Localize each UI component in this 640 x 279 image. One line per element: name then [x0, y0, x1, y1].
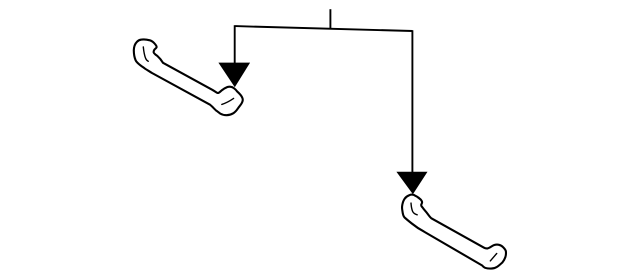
callout horizontal line — [235, 26, 412, 31]
crease on left handle upper end — [143, 47, 148, 61]
callout leader tick (top center) — [329, 9, 331, 29]
wire: left vertical drop — [234, 25, 236, 64]
wire: right vertical drop — [411, 30, 413, 173]
crease on right handle upper end — [411, 203, 417, 215]
crease on right handle lower end — [490, 254, 496, 261]
grab handle (right) outline — [402, 195, 506, 269]
crease on left handle lower end — [222, 98, 234, 104]
arrowhead to left handle — [218, 63, 250, 88]
arrowhead to right handle — [396, 172, 427, 195]
grab handle (left) outline — [134, 39, 243, 115]
